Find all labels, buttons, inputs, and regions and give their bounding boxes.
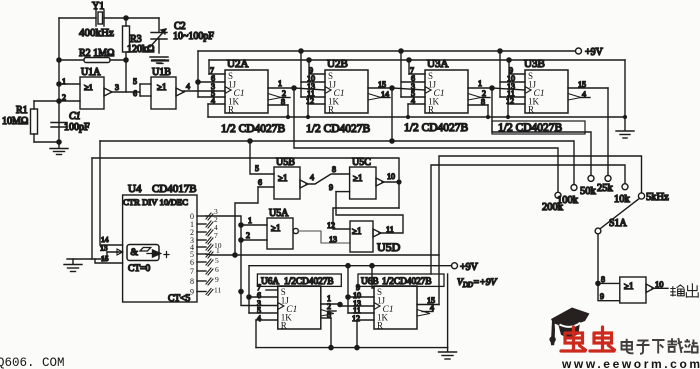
wire 5kHz net from U6B up and right bbox=[439, 156, 642, 305]
svg-text:CT<5: CT<5 bbox=[168, 294, 190, 304]
node R2 left bbox=[57, 58, 61, 62]
svg-text:1/2 CD4027B: 1/2 CD4027B bbox=[306, 123, 371, 135]
ground right of rails bbox=[616, 131, 634, 138]
wire R3 node to U1A output bbox=[125, 60, 127, 92]
svg-text:3: 3 bbox=[115, 83, 119, 92]
svg-text:9: 9 bbox=[215, 275, 219, 284]
svg-text:U6A: U6A bbox=[261, 277, 279, 287]
U4 pin 14 clock input bbox=[100, 141, 123, 245]
wire +9V rail top bbox=[198, 50, 575, 52]
wire U3B J/K tie to +9V rail bbox=[499, 51, 501, 97]
svg-text:6: 6 bbox=[258, 178, 262, 187]
node U5C out bbox=[397, 180, 401, 184]
gate U1A bbox=[59, 67, 140, 109]
svg-text:10MΩ: 10MΩ bbox=[2, 116, 28, 127]
wire U2B Q down along 100k net bbox=[391, 88, 393, 141]
node U6B J bbox=[346, 295, 350, 299]
svg-text:≥1: ≥1 bbox=[84, 82, 93, 92]
svg-text:1: 1 bbox=[248, 216, 252, 225]
svg-text:U4: U4 bbox=[128, 183, 142, 195]
wire U2B Q to U3A clock bbox=[392, 88, 425, 90]
node C1 bottom bbox=[57, 140, 61, 144]
wire rail riser right bbox=[447, 274, 449, 348]
svg-text:12: 12 bbox=[352, 314, 360, 323]
svg-text:1: 1 bbox=[278, 79, 282, 88]
svg-text:14: 14 bbox=[381, 90, 389, 99]
node U5A input 2 bbox=[239, 238, 243, 242]
flip-flop U3A bbox=[401, 58, 492, 134]
svg-text:U2B: U2B bbox=[327, 58, 348, 70]
node output gate input bbox=[596, 281, 600, 285]
svg-text:10~100pF: 10~100pF bbox=[173, 31, 214, 42]
wire top from left rail to crystal bbox=[59, 17, 96, 19]
wire split to U1B inputs bbox=[133, 77, 151, 98]
node U1A pin1 bbox=[57, 82, 61, 86]
wire crystal to node R3 top bbox=[104, 17, 159, 19]
svg-text:R2 1MΩ: R2 1MΩ bbox=[79, 48, 115, 59]
svg-text:U1B: U1B bbox=[152, 67, 171, 78]
wire U5A out to U5D in13 bbox=[298, 231, 350, 243]
svg-text:5kHz: 5kHz bbox=[646, 192, 669, 203]
svg-text:100k: 100k bbox=[557, 195, 579, 206]
svg-text:1: 1 bbox=[478, 79, 482, 88]
svg-text:4: 4 bbox=[430, 304, 434, 313]
crystal Y1 bbox=[79, 1, 114, 39]
wire +9V down to U6B J/K bbox=[347, 266, 349, 313]
flip-flop U6B bbox=[348, 277, 439, 331]
svg-text:≥1: ≥1 bbox=[624, 281, 633, 291]
svg-text:Y1: Y1 bbox=[92, 1, 104, 12]
svg-text:S1A: S1A bbox=[609, 218, 628, 229]
svg-text:10k: 10k bbox=[614, 194, 631, 205]
svg-text:15: 15 bbox=[578, 80, 586, 89]
wire 100k net horizontal bbox=[100, 141, 574, 185]
svg-text:1/2 CD4027B: 1/2 CD4027B bbox=[404, 122, 469, 134]
wire U5C out to U5D in12 bbox=[333, 208, 399, 229]
svg-text:25k: 25k bbox=[597, 183, 614, 194]
svg-text:U2A: U2A bbox=[227, 58, 248, 70]
gate U7 output bbox=[598, 275, 668, 303]
wire U5B in6 to out5 line bbox=[235, 187, 258, 255]
svg-text:1/2 CD4027B: 1/2 CD4027B bbox=[221, 123, 286, 135]
wire U6A R down to ground rail bbox=[255, 320, 257, 348]
svg-text:4: 4 bbox=[211, 97, 215, 106]
gate U5A bbox=[241, 208, 298, 249]
node crystal/R3/C2 junction bbox=[124, 16, 128, 20]
svg-text:1: 1 bbox=[216, 246, 220, 255]
U4 output labels bbox=[190, 212, 194, 297]
svg-text:U5A: U5A bbox=[269, 208, 289, 219]
watermark site name characters bbox=[622, 338, 698, 354]
watermark graduation cap logo bbox=[549, 308, 589, 346]
wire U2B S to S rail bbox=[308, 60, 310, 74]
node U6A pin8 on rail bbox=[329, 346, 333, 350]
svg-text:4: 4 bbox=[582, 90, 586, 99]
node on +9V rail U3B bbox=[498, 49, 502, 53]
node U2A J bbox=[196, 80, 200, 84]
node U5A input 1 bbox=[239, 223, 243, 227]
wire U6 ground rail bbox=[256, 347, 448, 349]
svg-text:7: 7 bbox=[190, 267, 194, 276]
svg-text:6: 6 bbox=[190, 258, 194, 267]
tap terminal 25k bbox=[597, 175, 614, 194]
label output chinese bbox=[671, 284, 698, 297]
wire U2A Q down to 200k tap bbox=[294, 88, 558, 192]
svg-text:4: 4 bbox=[310, 173, 314, 182]
svg-text:8: 8 bbox=[601, 275, 605, 284]
node R2 right / R3 bottom bbox=[124, 58, 128, 62]
svg-text:100pF: 100pF bbox=[64, 122, 90, 133]
svg-text:9: 9 bbox=[600, 292, 604, 301]
svg-text:&: & bbox=[131, 248, 139, 258]
capacitor C1 bbox=[51, 111, 90, 133]
svg-text:CD4017B: CD4017B bbox=[152, 183, 197, 195]
+9V terminal top bbox=[576, 47, 604, 58]
svg-text:≥1: ≥1 bbox=[157, 82, 166, 92]
svg-text:9: 9 bbox=[190, 288, 194, 297]
wire +9V down to U6A J/K bbox=[248, 266, 250, 313]
label box U6A bbox=[257, 274, 341, 286]
U4 pin 15 reset from U5C bbox=[92, 158, 123, 263]
wire U5B out to U5C in8 bbox=[306, 174, 350, 184]
svg-text:15: 15 bbox=[378, 80, 386, 89]
node U6B JK riser bbox=[346, 264, 350, 268]
node out9 joint bbox=[239, 289, 243, 293]
U4 output pin numbers bbox=[214, 207, 222, 295]
wire ground line U4 bbox=[67, 258, 107, 260]
svg-text:9: 9 bbox=[329, 183, 333, 192]
node 100k to U5B bbox=[248, 139, 252, 143]
svg-text:8: 8 bbox=[481, 98, 485, 107]
counter U4 CD4017B bbox=[123, 183, 197, 304]
node U6A J bbox=[247, 295, 251, 299]
tap terminal 50k bbox=[580, 175, 597, 197]
svg-text:+9V: +9V bbox=[460, 262, 479, 273]
resistor R2 bbox=[59, 48, 126, 63]
artifact bar above U1B bbox=[152, 61, 168, 64]
wire U3A Q down to 50k tap bbox=[492, 88, 591, 175]
ground U4 left bbox=[64, 259, 82, 272]
svg-text:≥1: ≥1 bbox=[271, 223, 280, 233]
wire U5C output net to U4 reset bbox=[92, 158, 399, 208]
ground below C1 bbox=[50, 142, 68, 155]
svg-text:U5D: U5D bbox=[377, 240, 401, 254]
wire U3A S to S rail bbox=[408, 60, 410, 74]
wire U3B Q down to 25k tap bbox=[607, 88, 609, 175]
svg-text:10: 10 bbox=[387, 172, 395, 181]
svg-text:12: 12 bbox=[306, 97, 314, 106]
capacitor C2 variable bbox=[150, 18, 214, 53]
tap terminal 5kHz bbox=[638, 192, 669, 203]
node U6A Q junction bbox=[338, 302, 342, 306]
label box around U3B 1/2 CD4027B bbox=[492, 121, 585, 134]
svg-text:8: 8 bbox=[190, 277, 194, 286]
node on S rail U2B bbox=[307, 58, 311, 62]
wire U3A J/K tie to +9V rail bbox=[400, 51, 402, 97]
svg-text:6: 6 bbox=[215, 265, 219, 274]
gate U5D bbox=[327, 221, 401, 254]
wire left vertical rail bbox=[58, 18, 60, 142]
svg-text:400kHz: 400kHz bbox=[79, 27, 114, 39]
U4 output hatch marks bbox=[206, 213, 213, 296]
svg-text:4: 4 bbox=[186, 82, 190, 91]
svg-text:50k: 50k bbox=[580, 186, 597, 197]
ground below C2 bbox=[150, 57, 168, 63]
node U6B R on rail bbox=[355, 346, 359, 350]
wire ground rail under flip-flops bbox=[208, 116, 625, 118]
wire U2A J/K tie to +9V rail bbox=[197, 51, 199, 97]
tap terminal 10k bbox=[614, 184, 631, 205]
switch S1A wiper arm bbox=[595, 199, 639, 234]
svg-text:U1A: U1A bbox=[81, 67, 101, 78]
svg-text:CT=0: CT=0 bbox=[128, 264, 150, 274]
wire U3B S to S rail bbox=[508, 60, 510, 74]
gate U1B bbox=[151, 67, 225, 109]
svg-text:12: 12 bbox=[506, 97, 514, 106]
resistor R1 bbox=[2, 101, 59, 142]
svg-text:6: 6 bbox=[133, 89, 137, 98]
U4 outputs 0-9 stubs bbox=[197, 216, 206, 292]
node on +9V rail U2B bbox=[299, 49, 303, 53]
wire U6B R down to ground rail bbox=[356, 320, 358, 348]
tap terminal 200k bbox=[542, 192, 564, 213]
resistor R3 bbox=[123, 18, 155, 60]
svg-text:4: 4 bbox=[257, 314, 261, 323]
tap terminal 100k bbox=[557, 185, 579, 207]
node on +9V rail U3A bbox=[399, 49, 403, 53]
svg-text:4: 4 bbox=[411, 97, 415, 106]
svg-text:12: 12 bbox=[327, 221, 335, 230]
svg-text:U3A: U3A bbox=[427, 58, 448, 70]
ground U6 right bbox=[439, 348, 457, 359]
svg-text:≥1: ≥1 bbox=[353, 173, 362, 183]
svg-text:+9V: +9V bbox=[585, 47, 604, 58]
svg-text:www.eeworm.com: www.eeworm.com bbox=[561, 357, 700, 369]
node U1A pin2 / R1 / C1 bbox=[57, 99, 61, 103]
wire 10k net from U6 area up and right bbox=[431, 165, 625, 274]
node U6B S riser bbox=[370, 264, 374, 268]
node U2B Q out bbox=[390, 86, 394, 90]
svg-text:10: 10 bbox=[655, 279, 664, 289]
wire U2B J/K tie to +9V rail bbox=[300, 51, 302, 97]
node on S rail U3A bbox=[407, 58, 411, 62]
wire U2A Q to U2B clock bbox=[294, 88, 325, 90]
watermark cap highlight stripe bbox=[560, 323, 581, 327]
wire U3A Q to U3B clock bbox=[492, 88, 525, 90]
svg-text:Q606. COM: Q606. COM bbox=[0, 356, 65, 369]
svg-text:8: 8 bbox=[332, 165, 336, 174]
wire U5D out to U5C in9 bbox=[336, 192, 403, 233]
flip-flop U2A bbox=[198, 58, 294, 135]
U4 pin 13 enable bbox=[100, 244, 123, 260]
gate U5C bbox=[329, 157, 399, 199]
flip-flop U6A bbox=[249, 277, 340, 331]
svg-text:2: 2 bbox=[246, 231, 250, 240]
wire U6A Q to U6B clock bbox=[340, 304, 374, 306]
svg-text:5: 5 bbox=[133, 77, 137, 86]
svg-text:13: 13 bbox=[100, 244, 108, 253]
svg-text:≥1: ≥1 bbox=[352, 226, 361, 236]
svg-text:≥1: ≥1 bbox=[278, 173, 287, 183]
svg-text:7: 7 bbox=[214, 231, 218, 240]
node on S rail U3B bbox=[507, 58, 511, 62]
svg-text:13: 13 bbox=[329, 235, 337, 244]
svg-text:5: 5 bbox=[255, 164, 259, 173]
wire S rail down to ground bbox=[624, 60, 626, 130]
gate U5B bbox=[250, 141, 308, 199]
svg-text:VDD=+9V: VDD=+9V bbox=[457, 278, 498, 289]
svg-text:11: 11 bbox=[214, 286, 221, 295]
watermark chongchong red characters bbox=[561, 327, 615, 351]
flip-flop U3B bbox=[498, 58, 608, 134]
svg-text:8: 8 bbox=[281, 98, 285, 107]
node ground rail joints bbox=[286, 115, 627, 119]
node U3A Q out bbox=[490, 86, 494, 90]
wire wiper down to output gate bbox=[597, 234, 599, 284]
node U2A Q out bbox=[292, 86, 296, 90]
wire S rail bbox=[209, 59, 625, 61]
flip-flop U2B bbox=[301, 58, 392, 135]
node 100k net bbox=[390, 139, 394, 143]
svg-text:U3B: U3B bbox=[524, 58, 545, 70]
wire out0 bus down to U5A and U6A clock bbox=[206, 216, 278, 306]
svg-text:C1: C1 bbox=[69, 111, 81, 122]
+9V terminal lower bbox=[452, 262, 479, 273]
svg-text:CTR DIV 10/DEC: CTR DIV 10/DEC bbox=[123, 197, 188, 207]
wire U6B S riser bbox=[372, 266, 374, 288]
node out5/U5B bbox=[233, 253, 237, 257]
svg-text:R1: R1 bbox=[16, 105, 28, 116]
wire U2A S to S rail bbox=[208, 60, 210, 74]
wire U4 out5 line bbox=[206, 254, 439, 255]
wire U6A pin8 down to ground rail bbox=[330, 318, 332, 348]
label box U6B bbox=[358, 274, 444, 286]
wire +9V rail lower bbox=[249, 265, 452, 267]
svg-text:11: 11 bbox=[386, 225, 394, 234]
svg-text:5: 5 bbox=[215, 256, 219, 265]
